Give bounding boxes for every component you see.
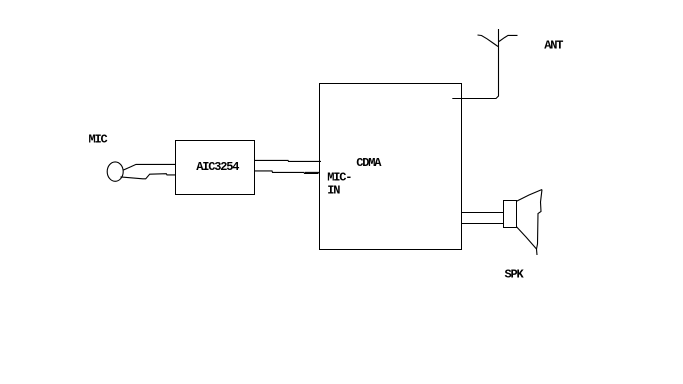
antenna left branch xyxy=(478,35,499,47)
block CDMA xyxy=(320,84,462,250)
wire lower end stub xyxy=(305,171,320,173)
svg-text:AIC3254: AIC3254 xyxy=(196,160,239,174)
wire speaker upper xyxy=(462,212,505,214)
block AIC3254 xyxy=(176,141,255,195)
speaker cone right edge xyxy=(537,190,543,256)
svg-text:IN: IN xyxy=(327,183,340,197)
wire mic upper xyxy=(123,164,176,170)
wire AIC3254 to CDMA upper xyxy=(255,160,322,161)
svg-text:ANT: ANT xyxy=(544,39,563,53)
svg-text:CDMA: CDMA xyxy=(356,156,382,170)
speaker driver xyxy=(504,201,517,228)
wire speaker lower xyxy=(462,223,505,225)
wire antenna feed xyxy=(452,29,498,99)
svg-text:MIC: MIC xyxy=(89,133,108,147)
wire AIC3254 to CDMA lower xyxy=(255,171,319,174)
speaker cone bottom xyxy=(517,227,537,249)
antenna right branch xyxy=(499,35,518,41)
microphone symbol xyxy=(107,162,123,181)
wire mic lower xyxy=(121,174,176,179)
svg-text:SPK: SPK xyxy=(505,268,525,282)
speaker cone top xyxy=(517,190,543,202)
svg-text:MIC-: MIC- xyxy=(327,170,351,184)
